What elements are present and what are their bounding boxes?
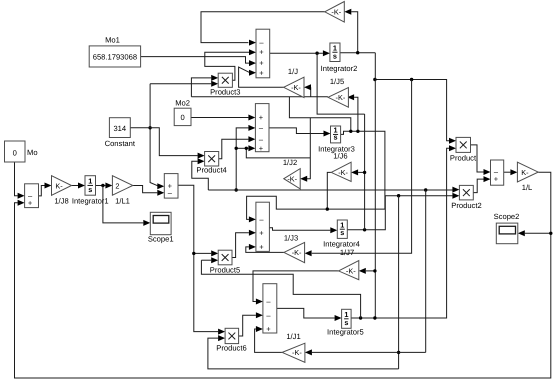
svg-text:-K-: -K-: [331, 8, 341, 17]
svg-text:+: +: [259, 113, 264, 122]
svg-text:s: s: [344, 318, 348, 327]
svg-text:Scope1: Scope1: [148, 235, 174, 244]
svg-text:K-: K-: [55, 181, 63, 190]
svg-text:1/J5: 1/J5: [330, 77, 344, 86]
svg-text:s: s: [340, 228, 344, 237]
svg-text:Product6: Product6: [216, 344, 246, 353]
svg-text:Mo: Mo: [27, 148, 38, 157]
svg-text:-K-: -K-: [336, 93, 346, 102]
svg-text:1/J6: 1/J6: [333, 152, 347, 161]
svg-text:-K-: -K-: [346, 267, 356, 276]
svg-text:1/J2: 1/J2: [283, 158, 297, 167]
svg-text:Scope2: Scope2: [494, 212, 520, 221]
svg-text:+: +: [494, 175, 499, 184]
svg-text:1/J8: 1/J8: [54, 197, 68, 206]
svg-text:-K-: -K-: [292, 348, 302, 357]
svg-text:Integrator1: Integrator1: [72, 197, 109, 206]
svg-text:Mo2: Mo2: [175, 99, 190, 108]
svg-text:-K-: -K-: [291, 83, 301, 92]
svg-text:314: 314: [113, 124, 126, 133]
svg-text:s: s: [88, 185, 92, 194]
svg-text:+: +: [28, 198, 33, 207]
svg-text:658.1793068: 658.1793068: [93, 53, 137, 62]
svg-text:Constant: Constant: [105, 139, 136, 148]
svg-text:0: 0: [180, 113, 184, 122]
svg-text:1/L: 1/L: [522, 183, 533, 192]
svg-text:+: +: [259, 59, 264, 68]
svg-text:1/J1: 1/J1: [286, 332, 300, 341]
svg-text:-K-: -K-: [287, 175, 297, 184]
svg-text:+: +: [259, 228, 264, 237]
svg-text:0: 0: [13, 149, 17, 158]
svg-text:+: +: [259, 144, 264, 153]
svg-text:1/J3: 1/J3: [284, 234, 298, 243]
svg-text:1/L1: 1/L1: [115, 197, 130, 206]
svg-text:-K-: -K-: [338, 168, 348, 177]
svg-text:Product: Product: [450, 154, 477, 163]
svg-text:+: +: [266, 325, 271, 334]
svg-text:2: 2: [115, 181, 119, 190]
svg-text:K-: K-: [521, 168, 529, 177]
svg-text:+: +: [259, 243, 264, 252]
svg-text:+: +: [259, 48, 264, 57]
svg-text:Product4: Product4: [196, 166, 226, 175]
svg-text:Product2: Product2: [451, 201, 481, 210]
svg-text:+: +: [259, 68, 264, 77]
svg-text:-K-: -K-: [292, 248, 302, 257]
svg-text:s: s: [333, 51, 337, 60]
svg-text:Product3: Product3: [210, 88, 240, 97]
svg-text:Product5: Product5: [210, 265, 240, 274]
svg-text:1/J7: 1/J7: [340, 248, 354, 257]
svg-text:1/J: 1/J: [288, 67, 298, 76]
svg-text:Integrator2: Integrator2: [321, 64, 358, 73]
svg-text:s: s: [334, 133, 338, 142]
svg-text:Mo1: Mo1: [105, 36, 120, 45]
svg-text:Integrator5: Integrator5: [327, 328, 364, 337]
